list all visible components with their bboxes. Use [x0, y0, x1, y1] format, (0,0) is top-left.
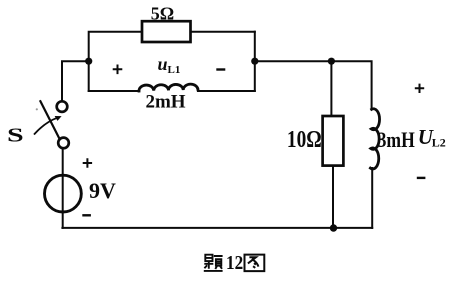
- svg-text:S: S: [7, 123, 24, 146]
- wire bottom loop left of coil: [89, 90, 139, 92]
- node dot left: [85, 58, 92, 65]
- source 9V circle: [45, 175, 82, 212]
- wire top-left horizontal and left loop side: [89, 32, 142, 91]
- svg-text:L2: L2: [432, 136, 446, 150]
- wire bottom rail: [62, 227, 372, 229]
- wire from switch bottom through source to bottom rail: [62, 148, 64, 228]
- wire right loop side: [254, 32, 256, 91]
- wire top-right from resistor to right loop corner: [191, 31, 255, 33]
- svg-text:9V: 9V: [89, 178, 116, 203]
- switch motion arc: [35, 118, 58, 134]
- stray mark near switch: [36, 108, 38, 110]
- caption hanzi TI (problem): [204, 255, 223, 271]
- wire mid-right from node to inductor branch: [255, 61, 372, 109]
- svg-text:2mH: 2mH: [145, 92, 185, 113]
- node dot right of loop: [251, 58, 258, 65]
- svg-text:5Ω: 5Ω: [151, 4, 174, 24]
- switch arc arrowhead: [55, 116, 62, 121]
- svg-text:3mH: 3mH: [378, 128, 416, 152]
- wire right branch lower (below 3mH): [371, 168, 373, 228]
- svg-text:12: 12: [226, 252, 243, 275]
- wire bottom loop right of coil: [198, 90, 255, 92]
- wire 10ohm branch lower: [332, 166, 334, 228]
- caption hanzi TU (figure): [244, 255, 264, 272]
- inductor L2 3mH coil: [370, 109, 379, 169]
- switch S arm blade: [40, 101, 59, 139]
- wire from left node to switch: [62, 61, 89, 101]
- svg-text:10Ω: 10Ω: [287, 126, 322, 153]
- polarity plus right branch: [415, 84, 424, 93]
- wire 10ohm branch upper: [330, 61, 332, 116]
- svg-text:L1: L1: [168, 64, 181, 76]
- resistor 5-ohm box: [142, 21, 191, 42]
- polarity minus below source: [82, 214, 91, 216]
- inductor L1 2mH coil: [139, 84, 198, 91]
- node dot bottom rail: [330, 224, 337, 231]
- polarity minus right of L1: [216, 68, 225, 70]
- polarity plus above source: [83, 158, 92, 167]
- switch S bottom contact circle: [58, 138, 69, 149]
- switch S top contact circle: [57, 101, 68, 112]
- svg-text:u: u: [158, 54, 168, 74]
- polarity minus right branch: [417, 177, 426, 179]
- node dot top of 10-ohm branch: [328, 58, 335, 65]
- polarity plus left of L1: [113, 65, 123, 75]
- resistor 10-ohm box: [323, 116, 344, 166]
